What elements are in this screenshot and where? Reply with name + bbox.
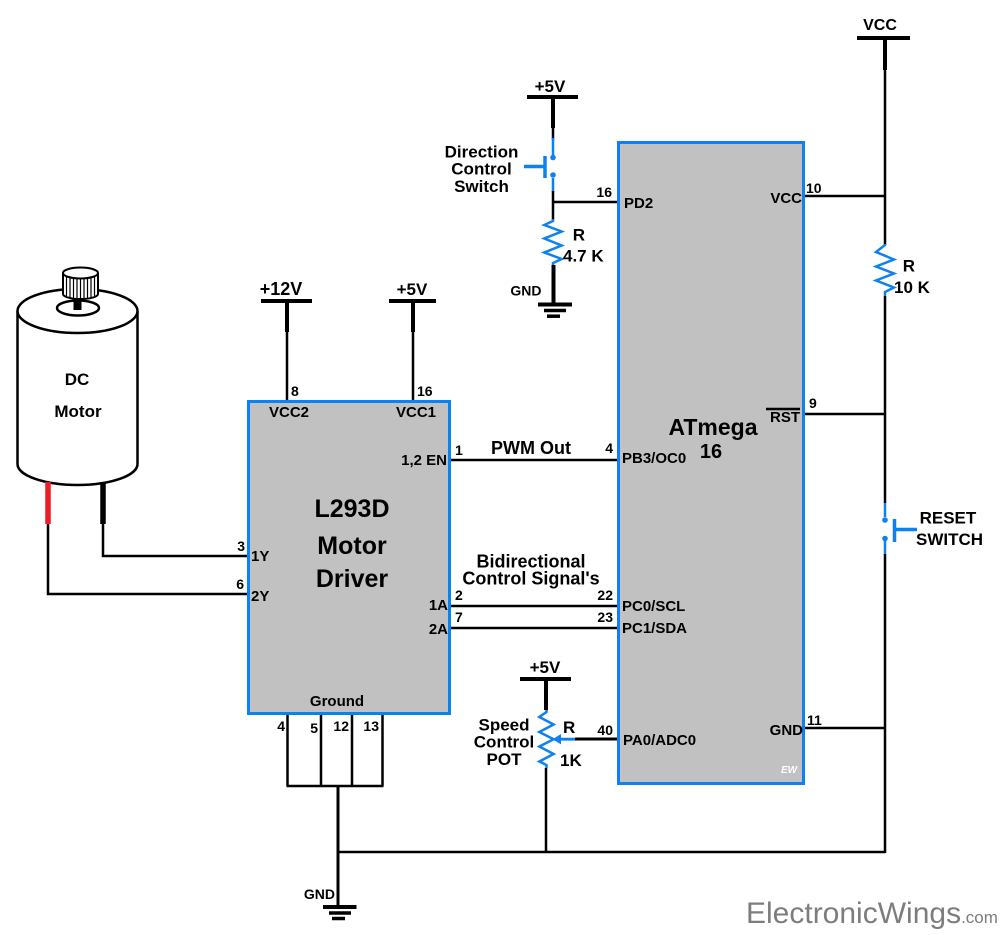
direction control switch (524, 138, 556, 192)
svg-text:+5V: +5V (530, 658, 561, 677)
svg-text:R: R (573, 226, 585, 245)
svg-text:2A: 2A (429, 621, 448, 638)
svg-text:EW: EW (781, 765, 799, 776)
svg-text:Control: Control (474, 733, 534, 752)
wire resistor to GND (552, 265, 556, 304)
svg-text:Motor: Motor (54, 402, 102, 421)
svg-text:40: 40 (597, 722, 613, 738)
svg-text:4: 4 (277, 718, 285, 734)
motor shaft in hole (74, 301, 82, 310)
wire GND pin 11 (805, 727, 885, 730)
svg-text:9: 9 (809, 395, 817, 411)
svg-text:SWITCH: SWITCH (916, 530, 983, 549)
DC motor body (18, 289, 138, 485)
svg-text:L293D: L293D (314, 495, 389, 523)
wire switch to resistor (552, 191, 555, 220)
wire red lead to 2Y (48, 524, 248, 594)
svg-text:R: R (563, 718, 575, 737)
wire EN to PB3 (PWM) (451, 459, 617, 462)
svg-text:1Y: 1Y (251, 548, 269, 565)
+5V power symbol (POT) (520, 658, 571, 710)
svg-text:5: 5 (310, 720, 318, 736)
svg-text:DC: DC (65, 370, 90, 389)
svg-text:22: 22 (597, 587, 613, 603)
wire 1A to PC0 (451, 605, 617, 608)
svg-text:1A: 1A (429, 597, 448, 614)
ground symbol bottom (323, 907, 357, 919)
svg-text:2: 2 (455, 587, 463, 603)
svg-text:8: 8 (291, 383, 299, 399)
svg-text:POT: POT (487, 750, 523, 769)
svg-text:PWM Out: PWM Out (491, 438, 571, 458)
svg-text:GND: GND (770, 722, 804, 739)
wire ground stem (337, 786, 340, 908)
svg-text:23: 23 (597, 609, 613, 625)
ElectronicWings logo (746, 897, 998, 930)
svg-text:+12V: +12V (260, 279, 303, 299)
wire rail resistor to RST (884, 296, 887, 503)
svg-text:PC1/SDA: PC1/SDA (622, 620, 687, 637)
VCC power symbol top (857, 17, 910, 70)
svg-text:PD2: PD2 (624, 195, 653, 212)
svg-text:6: 6 (236, 576, 244, 592)
reset switch (882, 503, 917, 555)
svg-text:3: 3 (237, 538, 245, 554)
label RST with overline (766, 409, 800, 426)
+12V power symbol (260, 279, 312, 332)
wire junction to PD2 (552, 201, 617, 204)
wire black lead to 1Y (103, 524, 248, 556)
svg-text:4.7 K: 4.7 K (563, 246, 604, 265)
svg-text:Driver: Driver (316, 565, 389, 593)
svg-text:16: 16 (417, 383, 433, 399)
motor red lead (45, 482, 51, 524)
ground symbol (4.7K) (538, 305, 572, 317)
svg-text:Control Signal's: Control Signal's (462, 569, 599, 589)
svg-text:Switch: Switch (454, 177, 509, 196)
svg-text:GND: GND (304, 886, 335, 902)
svg-text:VCC: VCC (770, 190, 802, 207)
wire pot to bus (545, 768, 548, 853)
svg-text:16: 16 (700, 441, 722, 463)
ATmega16 box (619, 143, 804, 784)
motor shaft (74, 268, 82, 308)
svg-text:12: 12 (333, 718, 349, 734)
motor knob (63, 268, 98, 300)
wire +5V to switch (552, 126, 555, 140)
svg-text:11: 11 (807, 712, 822, 728)
+5V power symbol (direction switch) (527, 77, 578, 128)
motor shaft hole (57, 301, 99, 316)
resistor R 10K (876, 244, 894, 296)
svg-text:PA0/ADC0: PA0/ADC0 (623, 732, 696, 749)
potentiometer R 1K (539, 710, 553, 768)
svg-text:Ground: Ground (310, 693, 364, 710)
svg-text:10 K: 10 K (894, 278, 931, 297)
svg-text:Control: Control (451, 160, 511, 179)
motor black lead (100, 482, 106, 524)
svg-text:+5V: +5V (397, 280, 428, 299)
svg-text:PC0/SCL: PC0/SCL (622, 598, 685, 615)
svg-text:16: 16 (596, 184, 612, 200)
svg-text:RST: RST (770, 409, 800, 426)
ground bus wire (338, 851, 885, 854)
svg-text:1,2 EN: 1,2 EN (401, 452, 447, 469)
pot wiper arrow (553, 734, 577, 744)
svg-text:R: R (903, 256, 915, 275)
svg-text:PB3/OC0: PB3/OC0 (622, 450, 686, 467)
svg-text:VCC1: VCC1 (396, 404, 436, 421)
L293D ground pins 4,5,12,13 (287, 715, 384, 786)
wire rail switch to bus (884, 554, 887, 853)
wire +12V to pin 8 (286, 330, 289, 400)
svg-text:ATmega: ATmega (668, 414, 757, 440)
svg-text:1: 1 (455, 442, 463, 458)
svg-text:VCC2: VCC2 (269, 404, 309, 421)
svg-text:2Y: 2Y (251, 588, 269, 605)
svg-text:VCC: VCC (863, 17, 897, 34)
wire RST pin 9 (805, 413, 885, 416)
svg-text:7: 7 (455, 609, 463, 625)
+5V power symbol (VCC1) (389, 280, 436, 332)
svg-text:Motor: Motor (317, 532, 387, 560)
wire 2A to PC1 (451, 627, 617, 630)
svg-text:ElectronicWings.com: ElectronicWings.com (746, 897, 998, 930)
wire VCC rail upper (884, 68, 887, 245)
svg-text:+5V: +5V (535, 77, 566, 96)
L293D motor driver box (249, 402, 450, 714)
svg-text:4: 4 (605, 440, 613, 456)
resistor R 4.7K (544, 219, 561, 266)
svg-text:RESET: RESET (920, 509, 977, 528)
svg-text:10: 10 (806, 180, 822, 196)
wire +5V to pin 16 (412, 330, 415, 400)
wire wiper to PA0 (575, 738, 617, 741)
svg-text:13: 13 (363, 718, 379, 734)
svg-text:1K: 1K (560, 751, 582, 770)
wire VCC pin 10 (805, 195, 885, 198)
svg-text:GND: GND (510, 283, 541, 299)
